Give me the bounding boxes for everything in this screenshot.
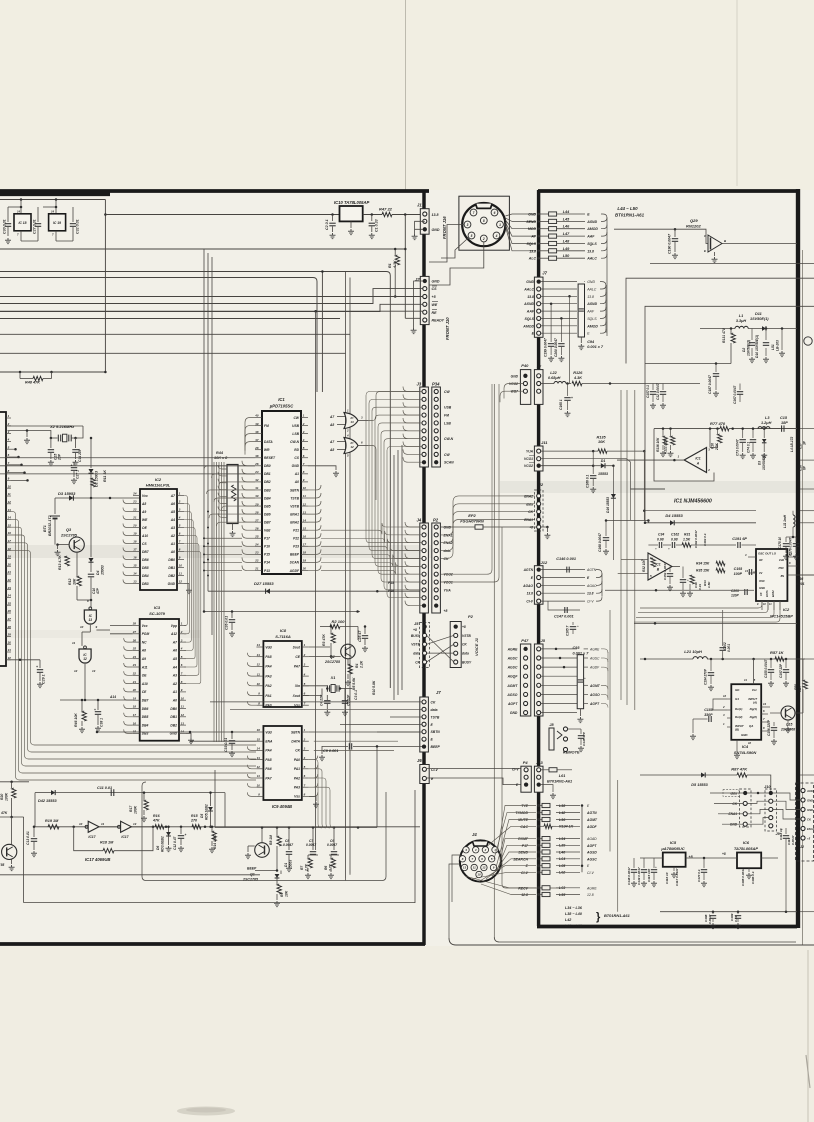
- svg-text:28: 28: [254, 510, 259, 514]
- svg-text:GND: GND: [432, 280, 440, 284]
- svg-text:12: 12: [74, 669, 78, 673]
- svg-text:R87 47K: R87 47K: [731, 767, 748, 772]
- svg-text:P2: P2: [433, 518, 439, 523]
- svg-text:C32 0.01: C32 0.01: [76, 219, 80, 234]
- svg-text:P17: P17: [264, 537, 270, 541]
- svg-text:VCO1: VCO1: [524, 457, 533, 461]
- svg-text:13: 13: [303, 510, 307, 514]
- svg-text:PGM: PGM: [142, 632, 150, 636]
- capacitor C30: [7, 207, 9, 222]
- svg-text:A10: A10: [141, 534, 148, 538]
- svg-text:VSTB: VSTB: [462, 634, 471, 638]
- svg-text:L22: L22: [550, 371, 557, 375]
- svg-text:DB0: DB0: [168, 558, 175, 562]
- svg-text:VSTB: VSTB: [411, 643, 420, 647]
- svg-text:TSTB: TSTB: [431, 715, 440, 719]
- svg-text:OE: OE: [142, 526, 148, 530]
- svg-text:+8: +8: [722, 852, 726, 856]
- svg-text:A2: A2: [170, 534, 175, 538]
- ground x27: [26, 431, 28, 438]
- svg-text:1.5K: 1.5K: [683, 538, 691, 542]
- svg-text:16: 16: [133, 556, 137, 560]
- svg-text:J3: J3: [417, 382, 422, 387]
- J10 to J2 wires: [773, 793, 801, 800]
- svg-text:FRONT J10: FRONT J10: [445, 317, 450, 340]
- svg-text:12: 12: [723, 694, 727, 698]
- svg-text:19: 19: [133, 532, 137, 536]
- svg-text:Vdd: Vdd: [265, 645, 272, 649]
- svg-text:R35 15K: R35 15K: [696, 569, 710, 573]
- svg-text:RESET: RESET: [264, 456, 276, 460]
- svg-text:11: 11: [179, 572, 182, 576]
- svg-text:+: +: [655, 865, 657, 869]
- svg-text:PA1: PA1: [294, 767, 300, 771]
- PLL bottom pin curves: [640, 601, 762, 608]
- svg-text:PA3: PA3: [294, 786, 300, 790]
- svg-text:4: 4: [464, 848, 467, 852]
- svg-text:C12 0.47: C12 0.47: [173, 836, 177, 850]
- svg-text:ASND: ASND: [586, 302, 597, 306]
- svg-text:IC6: IC6: [743, 840, 750, 845]
- svg-text:16: 16: [257, 728, 261, 732]
- svg-text:CK: CK: [462, 643, 467, 647]
- svg-text:#V: #V: [759, 571, 762, 575]
- svg-text:SBTN: SBTN: [290, 488, 300, 492]
- svg-text:AGMT: AGMT: [506, 684, 518, 688]
- svg-text:C4 22P: C4 22P: [320, 694, 324, 706]
- IC2 PLL box: [756, 549, 787, 601]
- svg-text:AF: AF: [530, 235, 537, 239]
- svg-text:IC2: IC2: [783, 607, 790, 612]
- svg-text:C12 0.0047: C12 0.0047: [656, 383, 660, 400]
- svg-text:C116 10: C116 10: [665, 872, 669, 884]
- svg-text:C162: C162: [671, 533, 679, 537]
- svg-text:R18 1M: R18 1M: [100, 841, 114, 845]
- svg-text:14: 14: [8, 516, 12, 520]
- svg-text:18: 18: [303, 551, 307, 555]
- svg-text:13.8: 13.8: [587, 249, 594, 253]
- bus line y334: [0, 333, 350, 335]
- IC1 right fan: [308, 485, 321, 490]
- svg-text:12.8: 12.8: [587, 893, 594, 897]
- svg-text:D4 15553: D4 15553: [665, 513, 683, 518]
- J9 J10 wires: [710, 792, 743, 794]
- svg-text:1.5K: 1.5K: [707, 581, 711, 588]
- transistor Q2 2SC2785: [341, 644, 356, 659]
- svg-text:AUDIO: AUDIO: [806, 789, 814, 793]
- svg-text:WE: WE: [142, 518, 148, 522]
- left sheet right border: [422, 190, 425, 945]
- svg-text:C33 0.01: C33 0.01: [224, 738, 228, 752]
- svg-text:24: 24: [132, 492, 137, 496]
- svg-text:AMOD: AMOD: [586, 227, 598, 231]
- svg-text:A1: A1: [170, 542, 175, 546]
- svg-text:31: 31: [255, 486, 259, 490]
- capacitor C32: [72, 207, 74, 222]
- svg-text:270: 270: [190, 819, 197, 823]
- NAND gate IC13a: [90, 605, 92, 608]
- svg-text:Rg(1): Rg(1): [750, 707, 757, 711]
- svg-text:C167 0.0047: C167 0.0047: [733, 386, 737, 404]
- svg-text:Vdd: Vdd: [264, 529, 271, 533]
- svg-text:GND: GND: [807, 808, 813, 812]
- svg-text:CS: CS: [432, 287, 438, 291]
- svg-text:ENA1: ENA1: [728, 812, 737, 816]
- svg-text:D42 15553: D42 15553: [38, 799, 57, 803]
- svg-text:DB7: DB7: [264, 520, 271, 524]
- svg-text:L34 ~ L36: L34 ~ L36: [565, 906, 583, 910]
- svg-text:CW-N: CW-N: [290, 440, 299, 444]
- svg-text:P15: P15: [264, 553, 270, 557]
- svg-text:10: 10: [257, 682, 261, 686]
- svg-text:23: 23: [254, 551, 259, 555]
- svg-text:C38 1: C38 1: [100, 718, 104, 727]
- svg-text:CS: CS: [294, 456, 299, 460]
- Q15 emitter gnd: [787, 720, 789, 726]
- svg-text:+8: +8: [462, 625, 466, 629]
- svg-text:R16: R16: [711, 443, 715, 449]
- svg-text:40: 40: [254, 414, 259, 418]
- svg-text:DB6: DB6: [142, 558, 149, 562]
- IC1 DB0 DB1 long lines: [0, 465, 255, 467]
- svg-text:CW: CW: [444, 390, 450, 394]
- svg-text:24: 24: [132, 655, 137, 659]
- svg-text:20: 20: [302, 567, 307, 571]
- svg-text:29: 29: [7, 633, 12, 637]
- IC1 right fan bundle to J4: [321, 523, 422, 534]
- svg-text:10: 10: [181, 696, 185, 700]
- L44 group bus: [601, 214, 607, 336]
- IC9 vdd wire: [97, 731, 256, 733]
- svg-text:MUTE: MUTE: [518, 818, 529, 822]
- svg-text:DATA: DATA: [766, 590, 769, 597]
- IC2 left pin dots: [207, 511, 209, 513]
- svg-text:12.8: 12.8: [521, 893, 528, 897]
- svg-text:CW: CW: [444, 453, 450, 457]
- svg-text:A7: A7: [170, 494, 175, 498]
- svg-text:R20: R20: [0, 794, 4, 800]
- svg-text:D3: D3: [758, 461, 762, 465]
- svg-text:L11 1mH: L11 1mH: [783, 514, 787, 528]
- svg-text:SCAN: SCAN: [444, 461, 454, 465]
- page right edge line: [796, 189, 800, 928]
- svg-text:10: 10: [303, 486, 307, 490]
- J1 gnd hook: [415, 221, 425, 229]
- svg-text:CK: CK: [415, 660, 420, 664]
- scan smear band mid: [0, 630, 200, 638]
- svg-text:D5 15553: D5 15553: [691, 783, 708, 787]
- svg-text:J5: J5: [541, 638, 546, 643]
- svg-text:L48: L48: [563, 240, 570, 244]
- svg-text:C185 0.0047: C185 0.0047: [741, 868, 745, 886]
- svg-text:EP2: EP2: [468, 513, 476, 518]
- svg-text:GND: GND: [526, 280, 534, 284]
- svg-text:L51: L51: [771, 344, 775, 350]
- svg-text:15: 15: [133, 564, 137, 568]
- CI-V wire to P4: [427, 768, 521, 770]
- svg-text:P2: P2: [468, 614, 474, 619]
- svg-text:DB7: DB7: [142, 699, 149, 703]
- svg-text:C27 0.01: C27 0.01: [33, 219, 37, 234]
- svg-text:S-7116A: S-7116A: [275, 634, 291, 639]
- svg-text:C27 1: C27 1: [76, 470, 80, 479]
- svg-text:+: +: [36, 665, 38, 669]
- bus line y318: [0, 318, 340, 320]
- svg-text:Vcc: Vcc: [752, 688, 758, 692]
- svg-text:DB2: DB2: [264, 480, 271, 484]
- svg-text:L61: L61: [559, 774, 566, 778]
- svg-text:TYE: TYE: [521, 804, 528, 808]
- svg-text:15: 15: [303, 526, 307, 530]
- svg-text:PA7: PA7: [294, 665, 300, 669]
- svg-text:C165 1: C165 1: [559, 399, 563, 410]
- svg-text:12: 12: [303, 502, 307, 506]
- svg-text:10: 10: [477, 873, 481, 877]
- svg-text:'85: '85: [0, 863, 5, 867]
- capacitor C190 0.0047: [614, 229, 708, 243]
- svg-text:0.001: 0.001: [727, 644, 731, 652]
- svg-text:P40: P40: [521, 363, 529, 368]
- svg-text:C147 0.001: C147 0.001: [554, 615, 574, 619]
- svg-text:4: 4: [346, 434, 349, 438]
- svg-text:SQLS: SQLS: [587, 317, 597, 321]
- bus line y372: [0, 371, 105, 373]
- svg-text:C9 0.001: C9 0.001: [323, 749, 338, 753]
- svg-text:DB0: DB0: [170, 707, 177, 711]
- transistor Q1 2SC2785: [255, 843, 270, 858]
- svg-text:C149 0.0047: C149 0.0047: [637, 867, 641, 885]
- svg-text:AGMT: AGMT: [586, 818, 598, 822]
- svg-text:USB: USB: [444, 406, 452, 410]
- svg-text:47K: 47K: [0, 811, 8, 815]
- wire corner x23 to y902: [23, 817, 25, 903]
- svg-text:14: 14: [257, 747, 261, 751]
- svg-text:C157 0.1: C157 0.1: [646, 385, 650, 398]
- svg-text:C15: C15: [780, 416, 788, 420]
- svg-text:IC8: IC8: [280, 628, 287, 633]
- svg-text:P13: P13: [264, 569, 270, 573]
- svg-text:D1: D1: [284, 863, 288, 867]
- capacitor C33 0.01: [231, 732, 233, 739]
- svg-text:AAF: AAF: [586, 310, 595, 314]
- svg-text:D11: D11: [755, 312, 762, 316]
- svg-text:CK: CK: [444, 557, 449, 561]
- svg-text:L21 10μH: L21 10μH: [684, 649, 702, 654]
- svg-text:WE: WE: [432, 303, 438, 307]
- svg-text:BR2032-1T2: BR2032-1T2: [48, 515, 52, 536]
- svg-text:DB3: DB3: [264, 488, 271, 492]
- svg-text:0.68μH: 0.68μH: [548, 376, 561, 380]
- svg-text:A: A: [696, 462, 700, 466]
- svg-text:J7: J7: [542, 271, 547, 276]
- svg-text:13: 13: [133, 822, 137, 826]
- svg-text:27: 27: [254, 518, 259, 522]
- svg-text:15553: 15553: [598, 472, 608, 476]
- svg-text:R47 22: R47 22: [379, 207, 393, 212]
- svg-text:A4: A4: [170, 518, 175, 522]
- svg-text:A10: A10: [141, 682, 148, 686]
- svg-text:J7: J7: [537, 364, 542, 369]
- IC2 right address bus: [184, 496, 188, 626]
- svg-text:C175 10: C175 10: [778, 537, 782, 549]
- svg-text:Vdd: Vdd: [779, 558, 784, 562]
- svg-text:P22: P22: [293, 537, 299, 541]
- svg-text:PSC: PSC: [778, 566, 784, 570]
- svg-text:J5: J5: [414, 621, 419, 626]
- svg-text:26: 26: [7, 609, 12, 613]
- capacitor C199: [550, 304, 552, 342]
- svg-text:23: 23: [132, 663, 137, 667]
- P2 to J2 curves: [441, 512, 535, 535]
- svg-text:AGSC: AGSC: [507, 657, 518, 661]
- svg-text:+: +: [668, 547, 670, 551]
- svg-text:12: 12: [482, 866, 486, 870]
- svg-text:CI-V: CI-V: [521, 871, 529, 875]
- svg-text:R10 5.8K: R10 5.8K: [372, 680, 376, 695]
- svg-text:A8: A8: [141, 502, 146, 506]
- svg-text:10: 10: [748, 741, 752, 745]
- svg-text:32: 32: [255, 478, 259, 482]
- svg-text:R135: R135: [597, 435, 607, 439]
- wire y781: [0, 781, 29, 783]
- svg-text:DB5: DB5: [142, 715, 149, 719]
- svg-text:L50: L50: [563, 254, 570, 258]
- transistor Q15 2SC2868: [781, 706, 795, 720]
- svg-text:12: 12: [181, 713, 185, 717]
- pin wires left IC to crystal: [8, 425, 84, 427]
- op-amp IC1 B: [648, 553, 672, 580]
- svg-text:0.0047: 0.0047: [791, 835, 795, 845]
- svg-text:R126: R126: [573, 371, 583, 375]
- svg-text:10: 10: [8, 484, 12, 488]
- svg-text:AGTN: AGTN: [586, 811, 597, 815]
- svg-text:ALC: ALC: [528, 257, 537, 261]
- svg-text:A3: A3: [170, 526, 175, 530]
- svg-text:data: data: [730, 791, 737, 795]
- svg-text:C185: C185: [704, 708, 714, 712]
- svg-text:IC17: IC17: [121, 835, 129, 839]
- svg-text:SC-1079: SC-1079: [149, 611, 166, 616]
- svg-text:AGQF: AGQF: [507, 675, 519, 679]
- svg-text:μPD7105SC: μPD7105SC: [269, 404, 294, 409]
- svg-text:C93: C93: [573, 646, 581, 650]
- svg-text:17: 17: [133, 548, 137, 552]
- svg-text:CW-N: CW-N: [444, 437, 454, 441]
- J7 wires left: [210, 701, 422, 703]
- J3 to J4 link verticals: [366, 392, 420, 543]
- svg-text:4: 4: [7, 438, 10, 442]
- OR gate outputs to J3: [368, 392, 422, 421]
- capacitor C27: [37, 207, 39, 222]
- svg-text:0.0047: 0.0047: [327, 843, 337, 847]
- svg-text:Ro(1): Ro(1): [735, 707, 742, 711]
- svg-text:DB2: DB2: [170, 723, 177, 727]
- svg-text:0.0047: 0.0047: [306, 843, 316, 847]
- svg-text:AGRE: AGRE: [589, 647, 600, 651]
- svg-text:RN1202: RN1202: [686, 224, 701, 229]
- svg-text:C5 22P: C5 22P: [347, 694, 351, 706]
- svg-text:A11: A11: [141, 665, 148, 669]
- svg-text:+: +: [571, 396, 573, 400]
- beep rail: [215, 827, 377, 829]
- svg-text:HM6116LP3L: HM6116LP3L: [146, 483, 171, 488]
- diode D2 15953: [90, 438, 92, 468]
- scan smear band right: [500, 481, 814, 493]
- scan smear band left: [0, 545, 440, 558]
- svg-text:TA78L005AP: TA78L005AP: [734, 846, 758, 851]
- svg-text:L46: L46: [563, 225, 570, 229]
- svg-text:R2 100: R2 100: [332, 619, 346, 624]
- svg-text:11: 11: [473, 866, 476, 870]
- svg-text:26: 26: [254, 526, 259, 530]
- svg-text:Q29: Q29: [690, 218, 698, 223]
- C93 rows to bus: [601, 649, 608, 653]
- svg-text:+: +: [185, 833, 187, 837]
- svg-text:C146 0.001: C146 0.001: [556, 557, 576, 561]
- svg-text:C203: C203: [731, 589, 739, 593]
- PLL bottom pins: [761, 601, 763, 610]
- svg-text:11: 11: [8, 492, 11, 496]
- svg-text:CI-V: CI-V: [526, 600, 533, 604]
- svg-text:IC1: IC1: [695, 457, 700, 461]
- svg-text:PA4: PA4: [265, 665, 271, 669]
- svg-text:0.33: 0.33: [698, 584, 702, 590]
- svg-text:A1: A1: [172, 690, 177, 694]
- svg-text:0.0047: 0.0047: [283, 843, 293, 847]
- svg-text:YUA: YUA: [526, 450, 534, 454]
- svg-text:C34: C34: [658, 533, 664, 537]
- svg-text:RE: RE: [432, 311, 438, 315]
- bus line CS: [0, 289, 423, 304]
- svg-text:BT01RN1-A61: BT01RN1-A61: [547, 780, 572, 784]
- svg-text:23: 23: [7, 586, 12, 590]
- svg-text:P23: P23: [293, 545, 299, 549]
- svg-text:2: 2: [180, 630, 183, 634]
- svg-text:2SC2785: 2SC2785: [242, 878, 259, 882]
- svg-text:13: 13: [133, 580, 137, 584]
- svg-text:AGSC: AGSC: [589, 657, 600, 661]
- svg-text:J11: J11: [541, 440, 548, 445]
- svg-text:19: 19: [8, 555, 12, 559]
- IC9 vss gnd: [309, 796, 316, 801]
- svg-text:17: 17: [303, 543, 307, 547]
- svg-text:15: 15: [257, 737, 261, 741]
- svg-text:ENA1: ENA1: [807, 827, 814, 831]
- svg-text:CAC: CAC: [520, 825, 528, 829]
- svg-text:AMOD: AMOD: [586, 324, 598, 328]
- wire bus top right: [626, 278, 797, 363]
- svg-text:R31: R31: [684, 533, 690, 537]
- svg-text:AGTN: AGTN: [586, 568, 597, 572]
- svg-text:DB4: DB4: [264, 496, 271, 500]
- svg-text:24: 24: [254, 543, 259, 547]
- svg-text:C13 0.01: C13 0.01: [26, 831, 30, 845]
- svg-text:ENA1: ENA1: [524, 518, 533, 522]
- resistor R48 47K: [19, 372, 21, 379]
- svg-text:4: 4: [180, 647, 183, 651]
- svg-text:BT01RN1-A61: BT01RN1-A61: [615, 213, 645, 218]
- svg-text:A3: A3: [172, 674, 177, 678]
- svg-text:+: +: [781, 827, 783, 831]
- svg-text:AGSO: AGSO: [589, 693, 600, 697]
- page fold line: [405, 0, 407, 190]
- svg-text:GND: GND: [511, 374, 519, 378]
- svg-text:10K: 10K: [73, 578, 77, 585]
- J4 wires left: [405, 522, 422, 527]
- svg-text:CK: CK: [528, 510, 533, 514]
- IC9 data ck wires: [314, 740, 398, 742]
- svg-text:IC9 4094B: IC9 4094B: [272, 804, 292, 809]
